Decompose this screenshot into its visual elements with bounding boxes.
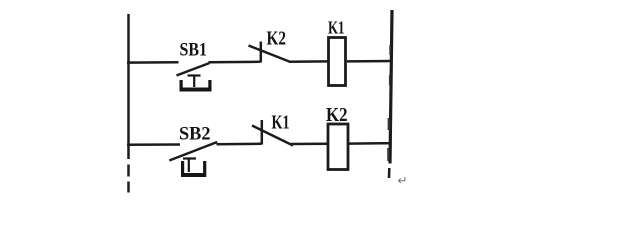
svg-text:K2: K2 [326, 105, 348, 126]
svg-text:SB1: SB1 [180, 40, 208, 61]
svg-text:SB2: SB2 [179, 124, 211, 145]
svg-text:K2: K2 [267, 28, 287, 50]
svg-text:K1: K1 [272, 112, 290, 134]
svg-text:K1: K1 [328, 18, 345, 38]
svg-text:↵: ↵ [398, 174, 408, 188]
